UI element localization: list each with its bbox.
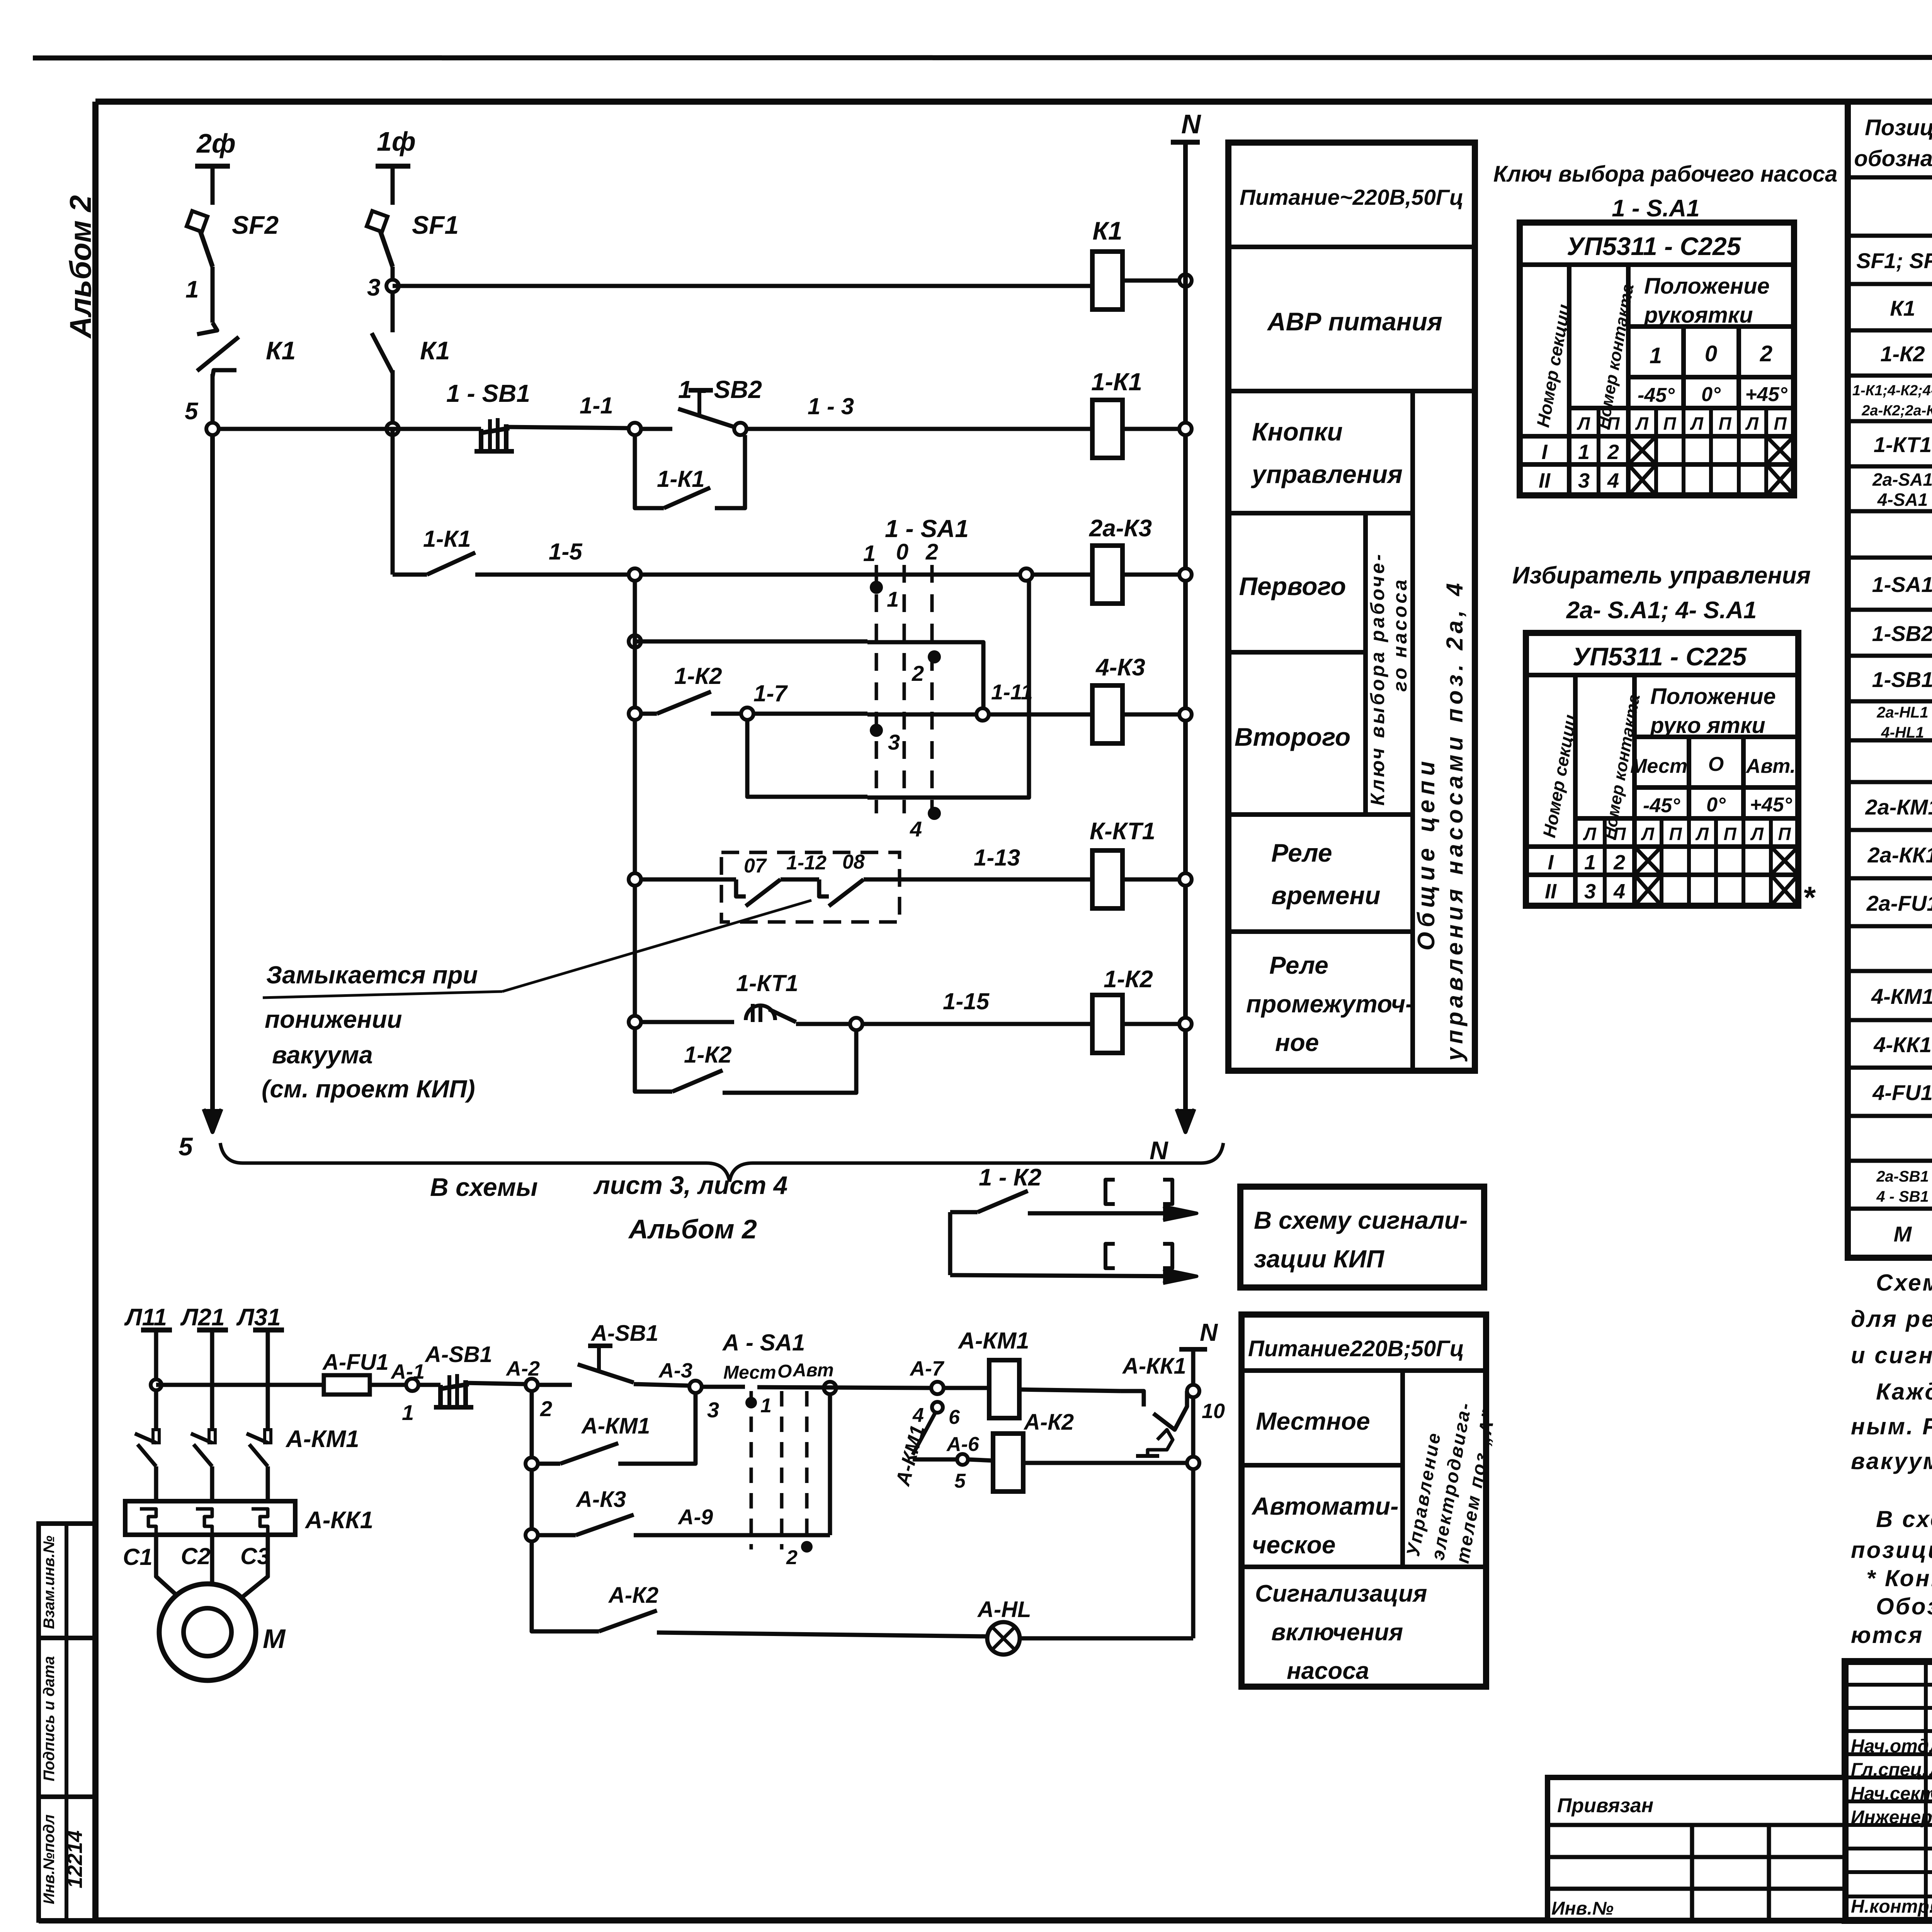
svg-text:SF2: SF2 bbox=[232, 211, 279, 239]
svg-text:Питание220В;50Гц: Питание220В;50Гц bbox=[1248, 1336, 1464, 1361]
svg-text:Л: Л bbox=[1695, 824, 1709, 844]
svg-text:08: 08 bbox=[842, 851, 865, 873]
left margin stamp boxes (Взам.инв.№ / Подпись и дата / Инв.№ подл.) bbox=[39, 1524, 95, 1920]
svg-text:Савченко: Савченко bbox=[1930, 1896, 1932, 1917]
svg-text:4-SА1: 4-SА1 bbox=[1877, 490, 1928, 510]
N bus arrow bottom bbox=[1177, 1109, 1194, 1132]
svg-text:1-13: 1-13 bbox=[974, 845, 1020, 871]
svg-text:0: 0 bbox=[1705, 341, 1717, 366]
svg-text:Гл.спец.: Гл.спец. bbox=[1851, 1760, 1927, 1780]
svg-text:А-9: А-9 bbox=[677, 1505, 713, 1529]
svg-text:Привязан: Привязан bbox=[1557, 1794, 1653, 1817]
svg-text:М: М bbox=[263, 1624, 286, 1654]
rung 3 wire through selector to node 1-9 bbox=[641, 573, 867, 577]
bracket pair on signal wire 2 bbox=[1105, 1244, 1115, 1268]
svg-text:07: 07 bbox=[744, 855, 767, 877]
svg-text:0°: 0° bbox=[1706, 794, 1726, 816]
relay contact K1 (NC) on 2ф branch bbox=[197, 323, 217, 334]
auxiliary contact А-КМ1 vertical bbox=[913, 1412, 935, 1455]
svg-text:1: 1 bbox=[1650, 343, 1662, 368]
svg-text:1-1: 1-1 bbox=[580, 393, 613, 418]
svg-text:2а- S.А1; 4- S.А1: 2а- S.А1; 4- S.А1 bbox=[1566, 597, 1757, 624]
svg-text:4-К3: 4-К3 bbox=[1095, 654, 1145, 681]
svg-text:К1: К1 bbox=[420, 336, 450, 365]
svg-text:Обозначения цепей в квадратных: Обозначения цепей в квадратных скобках п… bbox=[1876, 1594, 1932, 1619]
svg-text:Инженер.: Инженер. bbox=[1851, 1807, 1932, 1828]
svg-text:К1: К1 bbox=[266, 336, 296, 365]
svg-text:1-К2: 1-К2 bbox=[684, 1042, 732, 1068]
svg-text:Реле: Реле bbox=[1271, 838, 1332, 867]
motor M bbox=[159, 1584, 256, 1680]
svg-text:1-К2: 1-К2 bbox=[674, 663, 722, 689]
svg-text:2: 2 bbox=[786, 1546, 798, 1569]
svg-text:С1: С1 bbox=[123, 1544, 153, 1570]
svg-text:П: П bbox=[1607, 413, 1620, 434]
rung 6 bypass with contact 1-К2 bbox=[635, 1028, 672, 1092]
svg-text:1-7: 1-7 bbox=[753, 680, 788, 706]
bracket pair on signal wire 1 bbox=[1105, 1180, 1115, 1204]
circuit breaker SF2 bbox=[195, 216, 213, 267]
svg-text:1 - 3: 1 - 3 bbox=[808, 393, 854, 419]
svg-text:О: О bbox=[1708, 753, 1724, 776]
selector contact dot 1 (Мест) bbox=[745, 1397, 757, 1408]
svg-text:2а-К2;2а-К3: 2а-К2;2а-К3 bbox=[1861, 403, 1932, 419]
svg-text:Инв.№: Инв.№ bbox=[1551, 1898, 1614, 1919]
svg-text:Л: Л bbox=[1641, 824, 1655, 844]
svg-text:1-11: 1-11 bbox=[991, 680, 1033, 704]
svg-text:3: 3 bbox=[367, 274, 380, 301]
svg-text:руко ятки: руко ятки bbox=[1650, 713, 1765, 738]
vacuum contact block dashed box bbox=[721, 852, 900, 922]
svg-text:Избиратель управления: Избиратель управления bbox=[1512, 562, 1811, 589]
svg-text:А-FU1: А-FU1 bbox=[322, 1350, 389, 1375]
svg-text:1: 1 bbox=[863, 541, 876, 566]
drawing frame bottom line bbox=[39, 1917, 1932, 1923]
relay contact 1-К2 on rung 4 bbox=[629, 707, 641, 720]
svg-text:I: I bbox=[1548, 851, 1554, 874]
svg-text:Мест: Мест bbox=[723, 1362, 776, 1383]
svg-text:1-12: 1-12 bbox=[786, 852, 827, 874]
svg-text:Замыкается при: Замыкается при bbox=[266, 961, 478, 989]
svg-text:4-КМ1: 4-КМ1 bbox=[1871, 984, 1932, 1009]
sheet top border line bbox=[33, 57, 1932, 58]
svg-text:Автомати-: Автомати- bbox=[1251, 1492, 1398, 1520]
svg-text:2: 2 bbox=[1607, 440, 1619, 464]
svg-text:4-FU1: 4-FU1 bbox=[1872, 1080, 1932, 1105]
svg-text:П: П bbox=[1613, 824, 1626, 844]
parts table horizontal row lines bbox=[1848, 175, 1932, 180]
svg-text:го насоса: го насоса bbox=[1389, 577, 1411, 692]
wire from 1ф vertical to rung 3 contact 1-K1 bbox=[391, 429, 395, 575]
node on rung 6 bbox=[850, 1018, 862, 1030]
node 10 on N bus bbox=[1187, 1385, 1199, 1397]
svg-text:позиция электродвигателя по: позиция электродвигателя по плану. bbox=[1851, 1537, 1932, 1563]
signal wire arrow 1 to KIP bbox=[1028, 1211, 1190, 1216]
svg-text:А-К3: А-К3 bbox=[575, 1487, 626, 1512]
svg-text:В схему сигнали-: В схему сигнали- bbox=[1254, 1206, 1468, 1234]
pointer line to vacuum contact block bbox=[502, 900, 811, 992]
svg-text:3: 3 bbox=[707, 1398, 719, 1422]
relay contact 1-K1 on rung 3 bbox=[427, 553, 475, 575]
self hold А-КМ1 branch bbox=[526, 1458, 538, 1470]
wire 2ф branch upper bbox=[211, 267, 215, 323]
svg-text:А-КМ1: А-КМ1 bbox=[285, 1426, 359, 1452]
selector 1-SA1 dashed line position 0 bbox=[903, 565, 906, 813]
svg-text:Нач.сект: Нач.сект bbox=[1851, 1784, 1932, 1804]
vacuum contact 07 bbox=[736, 879, 746, 896]
box В схему сигнализации КИП bbox=[1240, 1187, 1484, 1287]
svg-text:-45°: -45° bbox=[1643, 794, 1680, 817]
svg-text:N: N bbox=[1181, 109, 1201, 139]
svg-text:Л21: Л21 bbox=[180, 1304, 225, 1331]
svg-text:обознач.: обознач. bbox=[1854, 146, 1932, 171]
svg-text:Л31: Л31 bbox=[236, 1304, 281, 1331]
wire rung4 to N bus bbox=[1122, 713, 1185, 717]
relay coil 1-K1 bbox=[1092, 400, 1122, 458]
svg-text:2: 2 bbox=[1613, 851, 1625, 874]
wire node to coil 1-K1 (label 1-3) bbox=[747, 427, 1092, 431]
function table: motor circuit purposes bbox=[1242, 1315, 1486, 1687]
svg-text:0°: 0° bbox=[1701, 383, 1721, 406]
svg-text:1-SВ2: 1-SВ2 bbox=[1872, 621, 1932, 646]
svg-text:3: 3 bbox=[1578, 469, 1590, 492]
svg-text:I: I bbox=[1541, 440, 1548, 464]
node on N bus for А-К2 bbox=[1187, 1457, 1199, 1469]
right bus N vertical bbox=[1183, 142, 1188, 1132]
svg-text:N: N bbox=[1150, 1136, 1168, 1165]
wire rung3 to N bus bbox=[1122, 573, 1185, 577]
svg-text:II: II bbox=[1545, 880, 1557, 903]
svg-text:В схемы: В схемы bbox=[430, 1173, 538, 1201]
wire rung6 to coil 1-К2 (label 1-15) bbox=[862, 1022, 1092, 1026]
svg-text:времени: времени bbox=[1271, 881, 1381, 910]
svg-text:для ремонтно-наладочных работ,: для ремонтно-наладочных работ, дистанцио… bbox=[1851, 1306, 1932, 1332]
svg-text:П: П bbox=[1718, 413, 1731, 434]
time relay coil К-КТ1 bbox=[1092, 850, 1122, 908]
node 1-11 bbox=[976, 708, 989, 721]
svg-text:2а-К3: 2а-К3 bbox=[1089, 515, 1152, 542]
svg-text:1: 1 bbox=[760, 1395, 772, 1417]
svg-text:Ключ выбора рабоче-: Ключ выбора рабоче- bbox=[1367, 552, 1388, 806]
svg-text:5: 5 bbox=[185, 398, 199, 425]
rung 2 wire from node5 to SB1 bbox=[386, 423, 399, 435]
relay coil 4-К3 bbox=[989, 713, 1092, 717]
svg-text:А-КМ1: А-КМ1 bbox=[581, 1413, 650, 1439]
svg-text:+45°: +45° bbox=[1750, 794, 1792, 816]
relay coil 2а-К3 bbox=[1032, 573, 1092, 577]
node 6 under А-7 bbox=[932, 1402, 943, 1413]
svg-text:А - SА1: А - SА1 bbox=[722, 1330, 805, 1355]
svg-text:П: П bbox=[1723, 824, 1736, 844]
svg-text:АВР питания: АВР питания bbox=[1267, 307, 1442, 336]
node 1-9 bbox=[1020, 568, 1032, 581]
svg-text:С2: С2 bbox=[181, 1543, 211, 1569]
svg-text:Кнопки: Кнопки bbox=[1252, 417, 1343, 446]
svg-text:2а-FU1: 2а-FU1 bbox=[1866, 891, 1932, 915]
svg-text:SF1; SF2: SF1; SF2 bbox=[1856, 248, 1932, 273]
svg-text:А-К2: А-К2 bbox=[608, 1583, 658, 1608]
svg-text:В схеме управления вместо инд: В схеме управления вместо индекса „ А " … bbox=[1876, 1506, 1932, 1532]
selector contact dot 1 on rung 3 bbox=[870, 581, 883, 594]
svg-text:П: П bbox=[1663, 413, 1676, 434]
title block outer frame bbox=[1845, 1662, 1932, 1920]
svg-text:*: * bbox=[1803, 880, 1816, 915]
svg-text:П: П bbox=[1778, 824, 1791, 844]
svg-text:управления насосами поз. 2а,: управления насосами поз. 2а, 4 bbox=[1442, 579, 1468, 1062]
rung 4 bypass wire with selector contact 4 bbox=[747, 720, 867, 797]
svg-text:Л: Л bbox=[1635, 413, 1649, 434]
svg-text:1 - SB1: 1 - SB1 bbox=[446, 379, 530, 407]
svg-text:Сигнализация: Сигнализация bbox=[1255, 1580, 1427, 1607]
svg-text:N: N bbox=[1200, 1318, 1218, 1346]
svg-text:1-К1;4-К2;4-К2: 1-К1;4-К2;4-К2 bbox=[1852, 383, 1932, 399]
wire 1ф branch to node 3 bbox=[391, 267, 395, 286]
Л П subcolumn dividers (table A) bbox=[1597, 408, 1600, 495]
selector contact dot 4 bbox=[928, 807, 941, 820]
svg-text:-45°: -45° bbox=[1638, 384, 1675, 406]
selector 1-SA1 dashed line position 1 bbox=[875, 565, 878, 813]
svg-text:ным. Резервный насос включаетс: ным. Резервный насос включается автомати… bbox=[1851, 1413, 1932, 1439]
wire rung2 to N bus bbox=[1122, 427, 1185, 431]
svg-text:1: 1 bbox=[1584, 851, 1596, 874]
left bus arrow bottom bbox=[204, 1109, 221, 1132]
svg-text:Л: Л bbox=[1690, 413, 1704, 434]
svg-text:2: 2 bbox=[540, 1396, 552, 1421]
svg-text:К1: К1 bbox=[1092, 216, 1122, 245]
Л П subcolumn dividers (table B) bbox=[1603, 818, 1607, 906]
rung 6 wire (1-К2) from left chain bbox=[629, 1016, 641, 1028]
svg-text:1-КТ1: 1-КТ1 bbox=[1874, 432, 1932, 457]
relay contact K1 (NO) on 1ф branch bbox=[391, 292, 395, 332]
svg-text:лист 3, лист 4: лист 3, лист 4 bbox=[593, 1171, 787, 1199]
svg-text:Чеснок: Чеснок bbox=[1930, 1807, 1932, 1828]
drawing frame left line bbox=[92, 102, 99, 1920]
svg-text:А-2: А-2 bbox=[505, 1357, 540, 1380]
rung 5 wire (время) from left chain bbox=[629, 873, 641, 886]
wire rung1 to N bus bbox=[1122, 279, 1185, 283]
wire left chain vertical 1-5 down bbox=[633, 581, 637, 1092]
svg-text:Нач.отд: Нач.отд bbox=[1851, 1736, 1929, 1757]
node after SB2 bbox=[734, 423, 747, 435]
svg-text:Схемой управления насосами пре: Схемой управления насосами предусматрива… bbox=[1876, 1270, 1932, 1296]
svg-text:Авт: Авт bbox=[793, 1360, 834, 1381]
key table B УП5311-С225 bbox=[1526, 633, 1798, 906]
svg-text:II: II bbox=[1539, 469, 1551, 492]
svg-text:К1: К1 bbox=[1890, 296, 1915, 320]
branch А-К2 to lamp bbox=[532, 1541, 599, 1631]
svg-text:А-3: А-3 bbox=[658, 1359, 692, 1382]
self hold contact 1-K1 under SB2 bbox=[635, 435, 664, 508]
svg-text:3: 3 bbox=[1584, 880, 1596, 903]
svg-text:насоса: насоса bbox=[1287, 1658, 1369, 1684]
svg-text:О: О bbox=[777, 1361, 792, 1382]
selector contact dot 2 (Авт) bbox=[801, 1541, 813, 1553]
svg-text:Второго: Второго bbox=[1235, 723, 1350, 751]
wire rung6 to N bus bbox=[1122, 1022, 1185, 1026]
wire 1ф branch to rung 2 bbox=[391, 370, 395, 429]
svg-text:1-К2: 1-К2 bbox=[1880, 342, 1925, 366]
svg-text:0: 0 bbox=[896, 539, 908, 565]
svg-text:вакуума в коллекторе.: вакуума в коллекторе. bbox=[1851, 1448, 1932, 1474]
title block left grid columns bbox=[1924, 1662, 1928, 1920]
svg-text:5: 5 bbox=[179, 1132, 193, 1161]
wire 2ф branch to node 5 bbox=[211, 374, 215, 429]
svg-text:2а-КК1: 2а-КК1 bbox=[1867, 843, 1932, 867]
wire SB1 to node 1-1 bbox=[506, 427, 629, 428]
selector contact dot 3 on rung 4 bbox=[870, 724, 883, 737]
svg-text:Питание~220В,50Гц: Питание~220В,50Гц bbox=[1240, 185, 1464, 210]
wire rung5 to N bus bbox=[1122, 878, 1185, 882]
svg-text:К-КТ1: К-КТ1 bbox=[1090, 818, 1155, 845]
svg-text:УП5311 - С225: УП5311 - С225 bbox=[1567, 232, 1742, 260]
svg-text:промежуточ-: промежуточ- bbox=[1246, 990, 1413, 1018]
svg-text:П: П bbox=[1669, 824, 1682, 844]
svg-text:ческое: ческое bbox=[1252, 1531, 1335, 1559]
svg-text:Общие цепи: Общие цепи bbox=[1413, 757, 1440, 951]
svg-text:1 - К2: 1 - К2 bbox=[979, 1164, 1041, 1191]
svg-text:1: 1 bbox=[1578, 440, 1590, 464]
contactor main contacts А-КМ1 3 poles bbox=[153, 1430, 159, 1443]
title block left grid rows bbox=[1845, 1683, 1932, 1687]
svg-text:4: 4 bbox=[1613, 880, 1625, 903]
svg-text:3: 3 bbox=[888, 730, 900, 754]
svg-text:А-КК1: А-КК1 bbox=[304, 1507, 373, 1534]
brace under circuit bbox=[220, 1143, 1223, 1182]
circuit breaker SF1 bbox=[375, 216, 393, 267]
signal wire arrow 2 to KIP bbox=[950, 1275, 1190, 1276]
svg-text:Л: Л bbox=[1583, 824, 1597, 844]
thermal relay А-КК1 heaters box bbox=[125, 1501, 295, 1535]
svg-text:Инв.№подл: Инв.№подл bbox=[41, 1815, 58, 1905]
svg-text:М: М bbox=[1894, 1222, 1912, 1246]
svg-text:4: 4 bbox=[912, 1404, 924, 1427]
svg-text:А-HL: А-HL bbox=[977, 1597, 1031, 1622]
svg-text:ное: ное bbox=[1275, 1029, 1319, 1056]
svg-text:Оселедец: Оселедец bbox=[1930, 1784, 1932, 1804]
node 1-7 bbox=[741, 707, 753, 720]
vacuum contact 08 bbox=[819, 879, 829, 896]
svg-text:1ф: 1ф bbox=[377, 126, 416, 156]
branch А-К3 with wire А-9 bbox=[530, 1470, 534, 1535]
svg-text:12214: 12214 bbox=[63, 1830, 87, 1888]
svg-text:* Контакт не используется.: * Контакт не используется. bbox=[1866, 1565, 1932, 1591]
svg-text:С3: С3 bbox=[240, 1543, 270, 1569]
selector 1-SA1 dashed line position 2 bbox=[930, 565, 934, 813]
left bus vertical down to arrow 5 bbox=[210, 435, 215, 1132]
drawing frame top line bbox=[95, 99, 1932, 105]
svg-text:А-КК1: А-КК1 bbox=[1122, 1354, 1186, 1379]
svg-text:4: 4 bbox=[1607, 469, 1619, 492]
svg-text:2а-КМ1: 2а-КМ1 bbox=[1865, 795, 1932, 819]
svg-text:Л: Л bbox=[1750, 824, 1764, 844]
table Привязан bbox=[1548, 1777, 1845, 1920]
svg-text:4-КК1: 4-КК1 bbox=[1873, 1032, 1932, 1057]
parts table outer frame bbox=[1848, 102, 1932, 1258]
svg-text:А-SB1: А-SB1 bbox=[590, 1321, 658, 1346]
svg-text:2а-НL1: 2а-НL1 bbox=[1876, 704, 1928, 721]
selector А-SA1 dashed lines bbox=[750, 1391, 753, 1549]
svg-text:2: 2 bbox=[1760, 341, 1772, 366]
svg-text:Каждый из насосов может быть в: Каждый из насосов может быть выбран рабо… bbox=[1876, 1379, 1932, 1405]
svg-text:4 - SВ1: 4 - SВ1 bbox=[1876, 1188, 1929, 1205]
relay coil 1-К2 bbox=[1092, 995, 1122, 1053]
svg-text:2а-SА1: 2а-SА1 bbox=[1872, 469, 1932, 490]
svg-text:4: 4 bbox=[910, 817, 922, 841]
svg-text:10: 10 bbox=[1202, 1400, 1225, 1423]
svg-text:1-КТ1: 1-КТ1 bbox=[736, 970, 798, 996]
svg-text:Альбом 2: Альбом 2 bbox=[628, 1214, 757, 1244]
svg-text:Реле: Реле bbox=[1269, 951, 1328, 979]
svg-text:Местное: Местное bbox=[1256, 1407, 1370, 1435]
svg-text:Положение: Положение bbox=[1650, 684, 1776, 709]
svg-text:П: П bbox=[1774, 413, 1787, 434]
svg-text:Л11: Л11 bbox=[124, 1304, 167, 1331]
svg-text:УП5311 - С225: УП5311 - С225 bbox=[1573, 642, 1747, 671]
svg-text:1-К1: 1-К1 bbox=[1091, 368, 1142, 396]
svg-text:Л: Л bbox=[1745, 413, 1759, 434]
svg-text:2ф: 2ф bbox=[196, 128, 236, 158]
wire lamp to N bus bbox=[1020, 1636, 1193, 1641]
svg-text:2а-SВ1: 2а-SВ1 bbox=[1876, 1168, 1929, 1185]
svg-text:Н.контр.: Н.контр. bbox=[1851, 1896, 1932, 1917]
svg-text:2: 2 bbox=[912, 661, 924, 685]
svg-text:понижении: понижении bbox=[265, 1005, 402, 1033]
svg-text:Позиц.: Позиц. bbox=[1865, 115, 1932, 140]
svg-text:1-5: 1-5 bbox=[549, 539, 583, 565]
svg-text:1-15: 1-15 bbox=[943, 988, 990, 1014]
svg-text:и сигнализация включения насос: и сигнализация включения насосов на пуль… bbox=[1851, 1342, 1932, 1368]
svg-text:ются при привязке типового: ются при привязке типового проекта. bbox=[1851, 1622, 1932, 1648]
wire to coil К-КТ1 (label 1-13) bbox=[864, 878, 1092, 882]
svg-text:1-SА1: 1-SА1 bbox=[1872, 572, 1932, 597]
wire 1-12 between vacuum contacts bbox=[781, 878, 819, 882]
svg-text:Взам.инв.№: Взам.инв.№ bbox=[41, 1536, 58, 1629]
rung 4 wire through selector to node 1-11 bbox=[753, 712, 867, 716]
svg-text:включения: включения bbox=[1271, 1619, 1403, 1646]
rung 3 bypass wire with selector contact 2 bbox=[629, 635, 641, 648]
svg-text:рукоятки: рукоятки bbox=[1643, 303, 1753, 328]
svg-text:1: 1 bbox=[185, 276, 199, 303]
svg-text:2: 2 bbox=[925, 539, 938, 565]
svg-text:А-КМ1: А-КМ1 bbox=[957, 1328, 1029, 1354]
svg-text:Альбом 2: Альбом 2 bbox=[63, 195, 97, 339]
svg-text:+45°: +45° bbox=[1745, 383, 1787, 406]
svg-text:4-НL1: 4-НL1 bbox=[1881, 724, 1924, 741]
selector contact dot 2 bbox=[928, 650, 941, 663]
svg-text:А-7: А-7 bbox=[909, 1357, 945, 1380]
svg-text:1 - SA1: 1 - SA1 bbox=[885, 515, 969, 543]
svg-text:Ключ выбора рабочего насоса: Ключ выбора рабочего насоса bbox=[1493, 162, 1838, 187]
svg-text:1-К2: 1-К2 bbox=[1104, 966, 1153, 993]
svg-text:управления: управления bbox=[1251, 460, 1403, 488]
wire selector to node А-7 bbox=[702, 1385, 745, 1389]
svg-text:Л: Л bbox=[1577, 413, 1590, 434]
svg-text:Положение: Положение bbox=[1644, 274, 1770, 299]
svg-text:вакуума: вакуума bbox=[272, 1041, 373, 1069]
relay coil K1 bbox=[393, 284, 1092, 288]
key table A УП5311-С225 bbox=[1520, 223, 1794, 495]
cell Автоматическое bbox=[1242, 1565, 1486, 1569]
svg-text:А-SB1: А-SB1 bbox=[424, 1342, 492, 1367]
svg-text:зации КИП: зации КИП bbox=[1254, 1245, 1385, 1273]
svg-text:1-К1: 1-К1 bbox=[657, 466, 705, 492]
svg-text:Авт.: Авт. bbox=[1745, 755, 1796, 777]
svg-text:6: 6 bbox=[949, 1406, 960, 1429]
svg-text:А-К2: А-К2 bbox=[1023, 1410, 1074, 1435]
svg-text:5: 5 bbox=[954, 1470, 966, 1492]
svg-text:Подпись и дата: Подпись и дата bbox=[41, 1656, 58, 1781]
svg-text:1 - S.А1: 1 - S.А1 bbox=[1612, 195, 1699, 222]
